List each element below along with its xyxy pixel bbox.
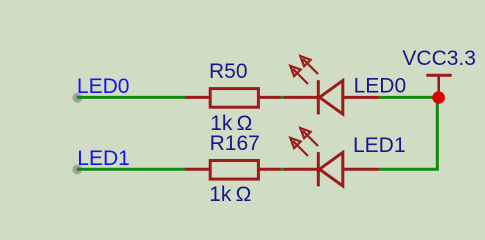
wire corner to D2: [379, 168, 439, 171]
resistor R167 body: [210, 161, 258, 180]
LED D2 triangle: [320, 152, 343, 186]
wire R50 to D1: [281, 96, 285, 99]
wire LED1 to R167: [77, 168, 186, 171]
svg-text:VCC3.3: VCC3.3: [402, 47, 476, 70]
terminal (row 2 left): [73, 165, 83, 175]
resistor R167 right pin: [258, 168, 280, 171]
svg-text:LED0: LED0: [77, 75, 130, 98]
LED D1 arrow 1: [300, 56, 318, 74]
LED D2 right pin: [343, 168, 379, 171]
LED D2 cathode bar: [317, 152, 320, 186]
power VCC3.3 stub: [437, 75, 440, 97]
wire LED0 to R50: [77, 96, 186, 99]
LED D1 right pin: [343, 96, 379, 99]
LED D1 arrow 2: [290, 66, 308, 84]
LED D2 arrow 1: [300, 128, 318, 146]
wire R167 to D2: [281, 168, 285, 171]
resistor R50 right pin: [258, 96, 280, 99]
wire D1 to junction: [379, 96, 438, 99]
svg-text:LED1: LED1: [353, 134, 406, 157]
LED D1 triangle: [320, 81, 343, 115]
LED D1 left pin: [284, 96, 318, 99]
power VCC3.3 bar: [426, 74, 451, 77]
svg-text:1k Ω: 1k Ω: [209, 183, 251, 206]
svg-text:R50: R50: [209, 60, 248, 83]
svg-text:LED0: LED0: [354, 74, 407, 97]
junction dot: [432, 91, 445, 104]
terminal (row 1 left): [73, 93, 83, 103]
LED D2 left pin: [284, 168, 318, 171]
svg-text:R167: R167: [210, 132, 260, 155]
wire junction down: [436, 97, 439, 169]
LED D1 cathode bar: [317, 80, 320, 114]
LED D2 arrow 2: [290, 138, 308, 156]
resistor R50 left pin: [186, 96, 210, 99]
resistor R167 left pin: [186, 168, 210, 171]
resistor R50 body: [210, 89, 258, 108]
svg-text:LED1: LED1: [77, 147, 130, 170]
